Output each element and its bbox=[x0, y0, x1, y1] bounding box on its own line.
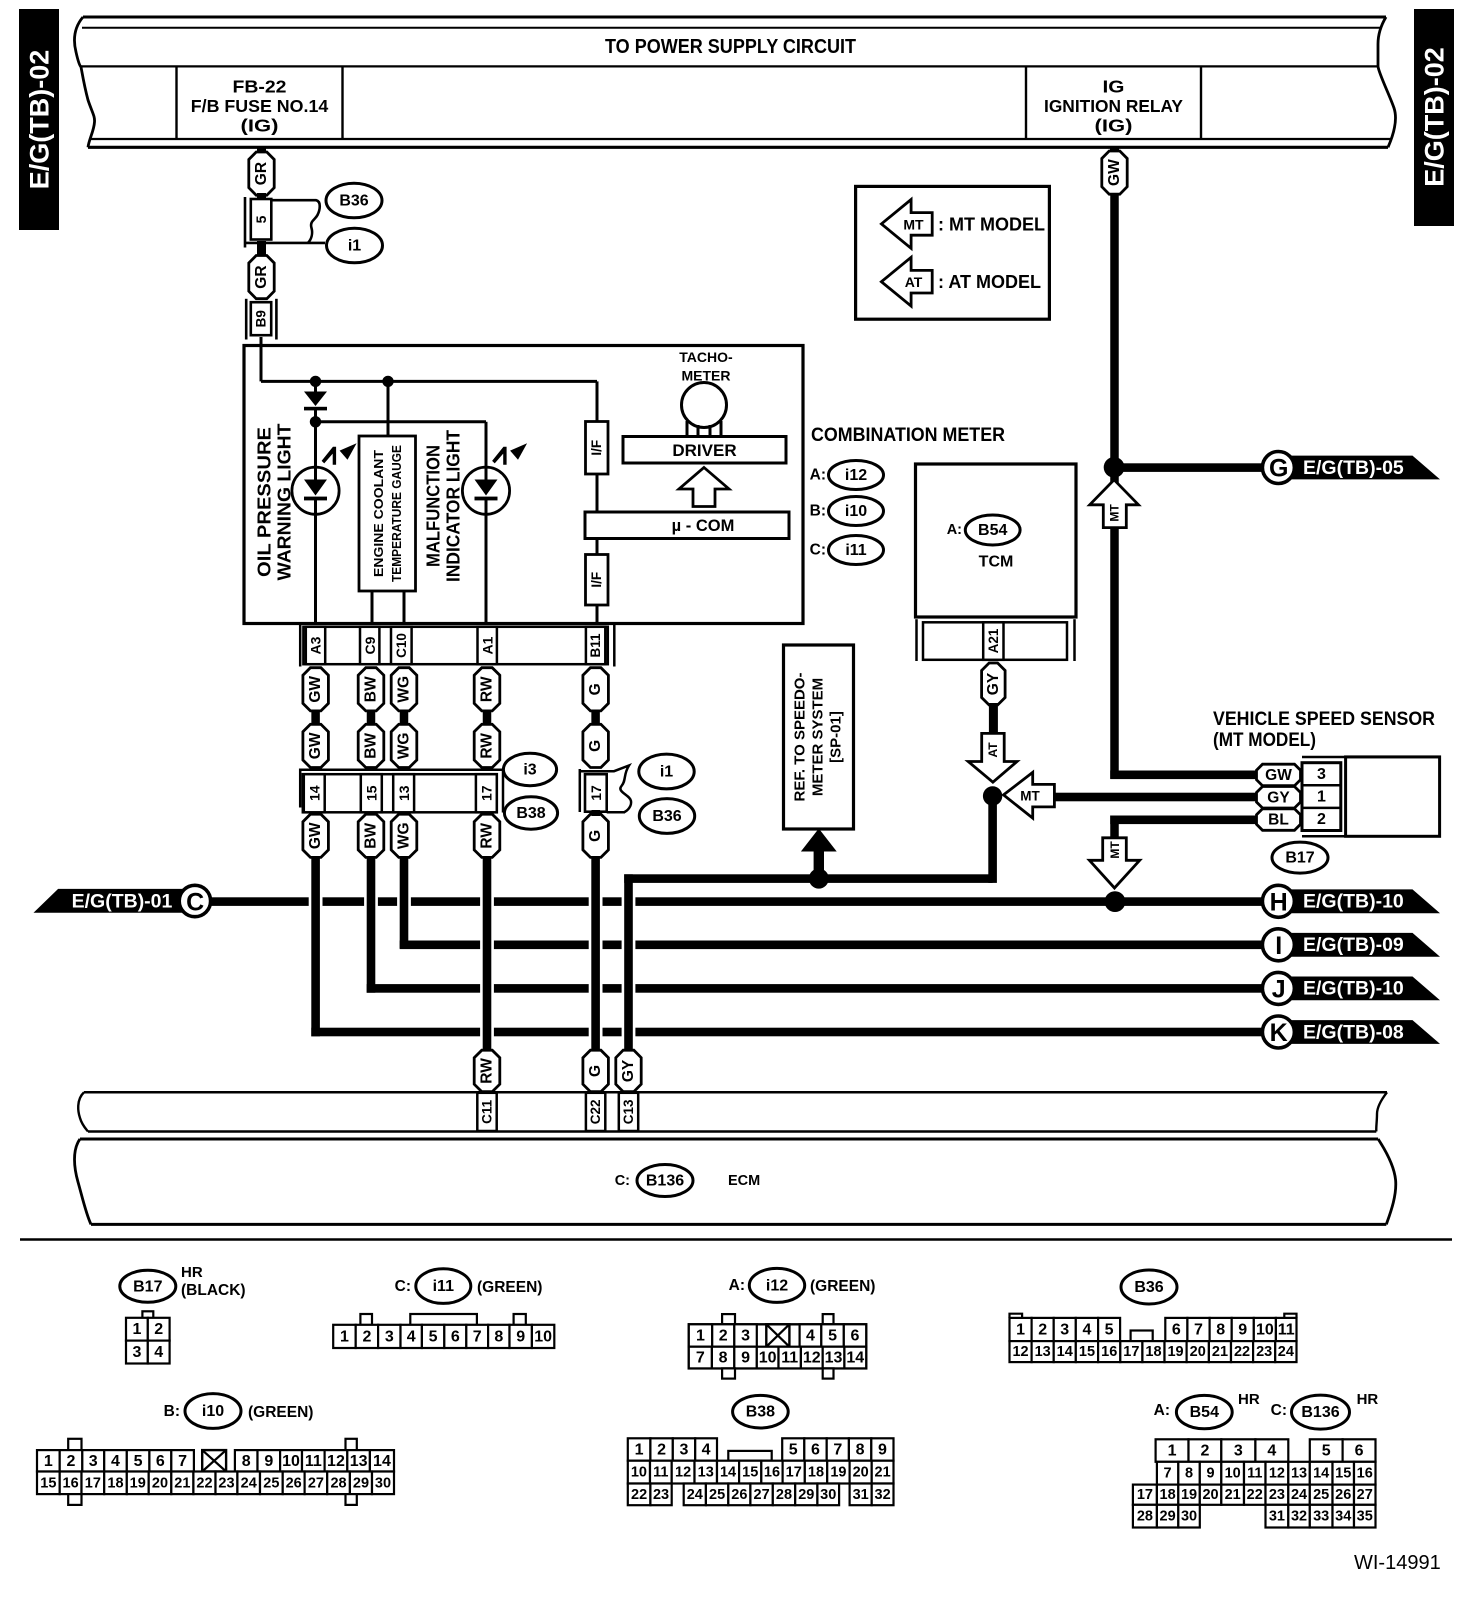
svg-text:i11: i11 bbox=[845, 542, 866, 559]
svg-text:13: 13 bbox=[1035, 1344, 1051, 1360]
svg-text:5: 5 bbox=[1105, 1322, 1114, 1339]
legend AT arrow bbox=[881, 257, 932, 306]
svg-text:1: 1 bbox=[1317, 789, 1326, 806]
svg-text:B38: B38 bbox=[746, 1404, 775, 1421]
wire colour tag G (row3) bbox=[583, 814, 609, 857]
svg-text:i12: i12 bbox=[845, 467, 867, 484]
svg-text:B:: B: bbox=[810, 503, 826, 520]
svg-text:WI-14991: WI-14991 bbox=[1354, 1552, 1441, 1574]
svg-text:B36: B36 bbox=[652, 808, 681, 825]
wire gauge to pin C9 bbox=[371, 591, 374, 625]
svg-text:8: 8 bbox=[1185, 1466, 1193, 1482]
legend box bbox=[856, 186, 1050, 319]
power supply bus bar left torn edge bbox=[74, 17, 94, 147]
svg-text:23: 23 bbox=[218, 1475, 234, 1491]
svg-text:34: 34 bbox=[1335, 1509, 1351, 1525]
wire colour tag BW (row1) bbox=[358, 668, 384, 711]
svg-text:18: 18 bbox=[1145, 1344, 1161, 1360]
wire colour tag BL (VSS) bbox=[1257, 809, 1301, 831]
wire colour tag WG (row3) bbox=[391, 814, 417, 857]
svg-text:[SP-01]: [SP-01] bbox=[828, 711, 845, 763]
svg-text:3: 3 bbox=[1234, 1443, 1243, 1460]
connector pinout B36 bbox=[1010, 1314, 1023, 1318]
svg-text:5: 5 bbox=[1322, 1443, 1331, 1460]
svg-text:6: 6 bbox=[1355, 1443, 1364, 1460]
svg-text:i3: i3 bbox=[523, 762, 536, 779]
svg-text:E/G(TB)-09: E/G(TB)-09 bbox=[1303, 934, 1404, 956]
svg-text:B38: B38 bbox=[516, 805, 545, 822]
svg-text:E/G(TB)-08: E/G(TB)-08 bbox=[1303, 1021, 1404, 1043]
svg-text:(IG): (IG) bbox=[241, 116, 279, 136]
meter pin C9 bbox=[360, 627, 379, 664]
svg-text:25: 25 bbox=[1313, 1487, 1329, 1503]
svg-text:20: 20 bbox=[853, 1465, 869, 1481]
svg-text:GW: GW bbox=[307, 822, 324, 849]
svg-text:MALFUNCTION: MALFUNCTION bbox=[424, 445, 444, 567]
svg-text:G: G bbox=[587, 1065, 604, 1077]
svg-text:9: 9 bbox=[1207, 1466, 1215, 1482]
svg-text:HR: HR bbox=[1238, 1391, 1260, 1408]
svg-text:31: 31 bbox=[1269, 1509, 1285, 1525]
svg-text:GW: GW bbox=[307, 676, 324, 703]
svg-text:4: 4 bbox=[154, 1344, 163, 1361]
svg-text:15: 15 bbox=[1079, 1344, 1095, 1360]
svg-text:(BLACK): (BLACK) bbox=[181, 1282, 246, 1299]
svg-text:3: 3 bbox=[1317, 766, 1326, 783]
svg-text:7: 7 bbox=[833, 1442, 842, 1459]
svg-text:A:: A: bbox=[947, 522, 962, 538]
svg-text:C10: C10 bbox=[394, 633, 409, 658]
svg-text:GW: GW bbox=[1265, 767, 1292, 784]
junction node H line bbox=[1105, 891, 1126, 912]
svg-text:GR: GR bbox=[253, 162, 270, 185]
svg-text:B:: B: bbox=[164, 1403, 180, 1420]
svg-text:10: 10 bbox=[534, 1328, 552, 1345]
svg-text:GR: GR bbox=[253, 265, 270, 288]
svg-text:3: 3 bbox=[741, 1328, 750, 1345]
legend MT arrow bbox=[881, 200, 932, 249]
combination meter box bbox=[244, 346, 803, 624]
svg-text:15: 15 bbox=[363, 785, 379, 801]
svg-text:ECM: ECM bbox=[728, 1173, 760, 1189]
wire stub G bbox=[591, 710, 600, 725]
ECM pin C11 bbox=[477, 1093, 496, 1131]
connector pinout i12 bbox=[722, 1314, 735, 1324]
meter pin A3 bbox=[306, 627, 325, 664]
LED emission arrows (oil pressure) bbox=[322, 447, 335, 464]
page link tag G E/G(TB)-05 bbox=[1285, 456, 1440, 480]
svg-text:33: 33 bbox=[1313, 1509, 1329, 1525]
svg-text:1: 1 bbox=[1168, 1443, 1177, 1460]
svg-text:8: 8 bbox=[242, 1453, 251, 1470]
svg-text:5: 5 bbox=[134, 1453, 143, 1470]
svg-text:K: K bbox=[1270, 1019, 1288, 1047]
svg-text:C:: C: bbox=[1271, 1402, 1287, 1419]
svg-text:2: 2 bbox=[1200, 1443, 1209, 1460]
svg-text:22: 22 bbox=[631, 1487, 647, 1503]
svg-text:A1: A1 bbox=[479, 636, 495, 654]
svg-text:E/G(TB)-05: E/G(TB)-05 bbox=[1303, 457, 1404, 479]
svg-text:4: 4 bbox=[1082, 1322, 1091, 1339]
svg-text:GW: GW bbox=[307, 732, 324, 759]
svg-text:MT: MT bbox=[1108, 841, 1122, 859]
mu-com block bbox=[585, 512, 789, 539]
svg-text:I: I bbox=[1275, 932, 1282, 960]
connector pinout B38 bbox=[628, 1438, 651, 1460]
svg-text:3: 3 bbox=[132, 1344, 141, 1361]
svg-text:10: 10 bbox=[1256, 1322, 1274, 1339]
svg-text:30: 30 bbox=[375, 1475, 391, 1491]
power supply bus bar outline bbox=[83, 16, 1386, 19]
connector tag B9 bbox=[245, 299, 248, 340]
wire colour tag BW (row3) bbox=[358, 814, 384, 857]
svg-text:3: 3 bbox=[680, 1442, 689, 1459]
connector ref ellipse B36 bbox=[326, 183, 382, 218]
svg-text:5: 5 bbox=[828, 1328, 837, 1345]
svg-text:17: 17 bbox=[786, 1465, 802, 1481]
MT model arrow down (to E/G(TB)-10) bbox=[1089, 838, 1139, 888]
connector pinout i11 bbox=[360, 1314, 372, 1325]
wire stub GR to connector 5 bbox=[257, 193, 266, 202]
svg-text:C:: C: bbox=[810, 542, 826, 559]
wire colour tag GY (ECM) bbox=[616, 1050, 641, 1092]
svg-text:24: 24 bbox=[1291, 1487, 1307, 1503]
svg-text:G: G bbox=[587, 740, 604, 752]
svg-text:7: 7 bbox=[696, 1350, 705, 1367]
wire colour tag GW (row3) bbox=[303, 814, 329, 857]
svg-text:COMBINATION METER: COMBINATION METER bbox=[811, 425, 1005, 446]
svg-text:23: 23 bbox=[653, 1487, 669, 1503]
wire GY to ECM C13 bbox=[624, 874, 633, 1050]
svg-text:REF. TO SPEEDO-: REF. TO SPEEDO- bbox=[792, 673, 809, 802]
svg-text:24: 24 bbox=[241, 1475, 257, 1491]
svg-text:GY: GY bbox=[620, 1059, 637, 1082]
junction node gauge branch bbox=[382, 376, 393, 387]
junction node oil-pressure branch bbox=[310, 376, 321, 387]
junction node AT/MT merge bbox=[983, 786, 1002, 805]
TCM connector strip bbox=[915, 619, 918, 661]
svg-text:AT: AT bbox=[905, 274, 923, 290]
svg-text:20: 20 bbox=[1202, 1487, 1218, 1503]
svg-text:17: 17 bbox=[1137, 1487, 1153, 1503]
svg-text:18: 18 bbox=[1160, 1487, 1176, 1503]
svg-text:1: 1 bbox=[44, 1453, 53, 1470]
svg-text:E/G(TB)-02: E/G(TB)-02 bbox=[25, 50, 55, 190]
svg-text:2: 2 bbox=[1317, 811, 1326, 828]
bus wire to E/G(TB)-08 (K) bbox=[311, 1028, 480, 1037]
wire mu-com to I/F lower bbox=[596, 539, 599, 555]
svg-text:I/F: I/F bbox=[589, 440, 604, 456]
svg-text:30: 30 bbox=[1181, 1509, 1197, 1525]
svg-text:17: 17 bbox=[85, 1475, 101, 1491]
svg-text:C:: C: bbox=[615, 1173, 630, 1189]
svg-text:23: 23 bbox=[1269, 1487, 1285, 1503]
svg-text:TEMPERATURE GAUGE: TEMPERATURE GAUGE bbox=[389, 445, 404, 582]
tachometer dial bbox=[682, 383, 727, 428]
svg-text:BW: BW bbox=[363, 676, 380, 702]
connector pinout B17 bbox=[142, 1311, 153, 1318]
ECM pin C13 bbox=[619, 1093, 638, 1131]
connector ref ellipse B36 (lower) bbox=[639, 799, 694, 834]
svg-text:i10: i10 bbox=[202, 1403, 224, 1420]
svg-text:18: 18 bbox=[107, 1475, 123, 1491]
svg-text:18: 18 bbox=[808, 1465, 824, 1481]
svg-text:WARNING LIGHT: WARNING LIGHT bbox=[275, 424, 295, 581]
svg-text:12: 12 bbox=[327, 1453, 345, 1470]
svg-text:9: 9 bbox=[516, 1328, 525, 1345]
oil pressure warning LED bbox=[292, 467, 339, 514]
connector ref ellipse B38 bbox=[504, 797, 557, 829]
meter pin C10 bbox=[391, 627, 412, 664]
diode D1 bbox=[314, 381, 317, 392]
svg-text:G: G bbox=[587, 830, 604, 842]
svg-text:17: 17 bbox=[1123, 1344, 1139, 1360]
svg-text:E/G(TB)-01: E/G(TB)-01 bbox=[72, 890, 173, 912]
svg-text:16: 16 bbox=[1101, 1344, 1117, 1360]
wire meter internal bus bbox=[261, 380, 597, 383]
svg-text:GW: GW bbox=[1106, 159, 1123, 186]
wire oil pressure LED to pin A3 bbox=[314, 514, 317, 625]
TCM box bbox=[916, 464, 1077, 617]
wire ignition feed elbow to GW pin bbox=[1110, 467, 1119, 779]
svg-text:10: 10 bbox=[759, 1350, 777, 1367]
page link tag K E/G(TB)-08 bbox=[1285, 1020, 1440, 1044]
svg-text:BL: BL bbox=[1268, 812, 1289, 829]
svg-text:13: 13 bbox=[396, 785, 412, 801]
half connector pin 17 (B36/i1) bbox=[579, 769, 582, 812]
wire colour tag GR (lower) bbox=[249, 256, 274, 299]
connector ref B17 with HR (BLACK) bbox=[120, 1270, 176, 1302]
svg-text:2: 2 bbox=[1038, 1322, 1047, 1339]
svg-text:27: 27 bbox=[754, 1487, 770, 1503]
pin 14 bbox=[304, 774, 325, 812]
svg-text:B136: B136 bbox=[1301, 1404, 1339, 1421]
svg-text:12: 12 bbox=[1269, 1466, 1285, 1482]
svg-text:G: G bbox=[1269, 455, 1288, 483]
svg-text:C9: C9 bbox=[362, 636, 378, 654]
junction node speedometer branch bbox=[809, 869, 829, 889]
svg-text:25: 25 bbox=[709, 1487, 725, 1503]
svg-text:26: 26 bbox=[1335, 1487, 1351, 1503]
svg-text:2: 2 bbox=[657, 1442, 666, 1459]
svg-text:11: 11 bbox=[1278, 1322, 1295, 1339]
svg-text:AT: AT bbox=[986, 742, 1000, 758]
svg-text:7: 7 bbox=[178, 1453, 187, 1470]
svg-text:31: 31 bbox=[853, 1487, 869, 1503]
svg-text:OIL PRESSURE: OIL PRESSURE bbox=[255, 427, 275, 577]
TCM pin A21 bbox=[983, 622, 1003, 660]
svg-text:VEHICLE SPEED SENSOR: VEHICLE SPEED SENSOR bbox=[1213, 709, 1435, 730]
svg-text:C13: C13 bbox=[621, 1099, 636, 1124]
svg-text:G: G bbox=[587, 683, 604, 695]
page link tag I E/G(TB)-09 bbox=[1285, 933, 1440, 957]
svg-text:(GREEN): (GREEN) bbox=[810, 1278, 875, 1295]
svg-text:IG: IG bbox=[1103, 77, 1125, 97]
svg-text:11: 11 bbox=[781, 1350, 798, 1367]
svg-text:8: 8 bbox=[1216, 1322, 1225, 1339]
svg-text:12: 12 bbox=[1012, 1344, 1028, 1360]
wire to coolant gauge bbox=[387, 381, 390, 437]
svg-text:7: 7 bbox=[1194, 1322, 1203, 1339]
svg-text:5: 5 bbox=[253, 215, 269, 223]
wire GW to E/G(TB)-08 line bbox=[311, 857, 320, 1037]
wire colour tag BW (row2) bbox=[358, 724, 384, 767]
wire to malfunction LED bbox=[485, 422, 488, 470]
connector strip i3/B38 bbox=[299, 769, 504, 772]
svg-text:28: 28 bbox=[776, 1487, 792, 1503]
svg-text:E/G(TB)-02: E/G(TB)-02 bbox=[1420, 47, 1450, 187]
svg-text:METER SYSTEM: METER SYSTEM bbox=[810, 678, 827, 796]
svg-text:A3: A3 bbox=[308, 636, 324, 654]
svg-text:B11: B11 bbox=[588, 633, 603, 658]
svg-text:i1: i1 bbox=[660, 764, 673, 781]
svg-text:15: 15 bbox=[1335, 1466, 1351, 1482]
svg-text:MT: MT bbox=[1020, 788, 1040, 803]
svg-text:22: 22 bbox=[196, 1475, 212, 1491]
svg-text:13: 13 bbox=[1291, 1466, 1307, 1482]
svg-text:14: 14 bbox=[1313, 1466, 1329, 1482]
svg-text:29: 29 bbox=[1160, 1509, 1176, 1525]
svg-text:B54: B54 bbox=[1190, 1404, 1219, 1421]
svg-text:19: 19 bbox=[830, 1465, 846, 1481]
connector pinout B54/B136 bbox=[1156, 1439, 1189, 1462]
svg-text:4: 4 bbox=[407, 1328, 416, 1345]
svg-text:C: C bbox=[186, 888, 204, 916]
connector pinout i10 bbox=[68, 1439, 81, 1450]
meter connector strip bbox=[299, 622, 302, 667]
MT model arrow left (speed signal) bbox=[1004, 772, 1055, 818]
svg-text:TACHO-: TACHO- bbox=[679, 349, 733, 365]
svg-text:10: 10 bbox=[282, 1453, 300, 1470]
wire MIL branch horizontal bbox=[316, 420, 487, 423]
bus wire E/G(TB)-01 to E/G(TB)-10 (C-H) bbox=[211, 897, 309, 906]
junction node MIL branch bbox=[310, 416, 321, 427]
svg-text:5: 5 bbox=[429, 1328, 438, 1345]
svg-text:27: 27 bbox=[1357, 1487, 1373, 1503]
svg-text:F/B FUSE NO.14: F/B FUSE NO.14 bbox=[191, 96, 329, 116]
connector ref ellipse i1 bbox=[327, 228, 383, 263]
svg-text:HR: HR bbox=[1357, 1391, 1379, 1408]
wire gauge to pin C10 bbox=[403, 591, 406, 625]
svg-text:INDICATOR LIGHT: INDICATOR LIGHT bbox=[444, 430, 464, 582]
svg-text:19: 19 bbox=[130, 1475, 146, 1491]
svg-text:14: 14 bbox=[720, 1465, 736, 1481]
wire stub GY to AT arrow bbox=[989, 703, 998, 734]
svg-text:1: 1 bbox=[1016, 1322, 1025, 1339]
svg-text:13: 13 bbox=[350, 1453, 368, 1470]
connector ref ellipse i1 (lower) bbox=[639, 754, 694, 789]
svg-text:C11: C11 bbox=[480, 1099, 495, 1124]
wire stub IG relay to GW tag bbox=[1110, 146, 1119, 154]
wire colour tag RW (row1) bbox=[474, 668, 500, 711]
LED emission arrows (MIL) bbox=[493, 447, 506, 464]
pin 13 bbox=[393, 774, 414, 812]
svg-text:14: 14 bbox=[1057, 1344, 1073, 1360]
svg-text:3: 3 bbox=[385, 1328, 394, 1345]
wire colour tag GY (TCM) bbox=[982, 663, 1006, 705]
wire to oil pressure LED bbox=[314, 422, 317, 470]
svg-text:14: 14 bbox=[846, 1350, 864, 1367]
svg-text:IGNITION RELAY: IGNITION RELAY bbox=[1044, 96, 1183, 116]
svg-text:22: 22 bbox=[1247, 1487, 1263, 1503]
svg-text:8: 8 bbox=[719, 1350, 728, 1367]
engine coolant temperature gauge bbox=[359, 436, 416, 591]
svg-text:7: 7 bbox=[1164, 1466, 1172, 1482]
wire stub WG bbox=[400, 710, 409, 725]
svg-text:15: 15 bbox=[742, 1465, 758, 1481]
svg-text:: MT MODEL: : MT MODEL bbox=[938, 214, 1045, 234]
wire colour tag G (ECM) bbox=[583, 1050, 609, 1092]
wire stub RW bbox=[483, 710, 492, 725]
wire colour tag GR (upper) bbox=[249, 152, 274, 195]
svg-text:27: 27 bbox=[308, 1475, 324, 1491]
svg-text:RW: RW bbox=[479, 676, 496, 702]
svg-text:GY: GY bbox=[985, 672, 1002, 695]
speedometer branch arrow bbox=[814, 848, 824, 879]
svg-text:14: 14 bbox=[373, 1453, 391, 1470]
svg-text:2: 2 bbox=[67, 1453, 76, 1470]
svg-text:24: 24 bbox=[687, 1487, 703, 1503]
wire B9 feed inside meter bbox=[260, 346, 263, 382]
svg-text:20: 20 bbox=[152, 1475, 168, 1491]
svg-text:B17: B17 bbox=[1285, 850, 1314, 867]
page link tag C E/G(TB)-01 bbox=[34, 889, 187, 913]
page link tag J E/G(TB)-10 bbox=[1285, 977, 1440, 1001]
svg-text:22: 22 bbox=[1234, 1344, 1250, 1360]
wire colour tag RW (ECM) bbox=[474, 1050, 500, 1092]
svg-text:A:: A: bbox=[1154, 1402, 1170, 1419]
page link tag H E/G(TB)-10 bbox=[1285, 889, 1440, 913]
svg-text:35: 35 bbox=[1357, 1509, 1373, 1525]
interface block I/F lower bbox=[586, 555, 609, 606]
svg-text:16: 16 bbox=[63, 1475, 79, 1491]
thick wire GW ignition feed down bbox=[1110, 193, 1119, 467]
connector ref ellipse i3 bbox=[503, 753, 556, 785]
svg-text:WG: WG bbox=[396, 822, 413, 849]
wire colour tag WG (row2) bbox=[391, 724, 417, 767]
svg-text:13: 13 bbox=[825, 1350, 843, 1367]
svg-text:DRIVER: DRIVER bbox=[672, 441, 736, 460]
svg-text:6: 6 bbox=[851, 1328, 860, 1345]
svg-text:TCM: TCM bbox=[979, 554, 1014, 571]
wire colour tag G (row1) bbox=[583, 668, 609, 711]
svg-text:19: 19 bbox=[1181, 1487, 1197, 1503]
svg-text:MT: MT bbox=[903, 216, 924, 232]
wire colour tag GW (row2) bbox=[303, 724, 329, 767]
left page banner E/G(TB)-02 bbox=[19, 9, 59, 230]
wire colour tag WG (row1) bbox=[391, 668, 417, 711]
svg-text:WG: WG bbox=[396, 676, 413, 703]
svg-text:6: 6 bbox=[451, 1328, 460, 1345]
svg-text:A:: A: bbox=[810, 467, 826, 484]
svg-text:BW: BW bbox=[363, 823, 380, 849]
connector ref B38 bbox=[733, 1395, 789, 1428]
wire stub GW bbox=[311, 710, 320, 725]
svg-text:B54: B54 bbox=[978, 522, 1007, 539]
svg-text:13: 13 bbox=[698, 1465, 714, 1481]
svg-text:A:: A: bbox=[729, 1277, 745, 1294]
svg-text:A21: A21 bbox=[986, 628, 1001, 653]
ECM connector strip bbox=[84, 1091, 1387, 1094]
relay block IG IGNITION RELAY (IG) bbox=[1025, 66, 1027, 139]
svg-text:11: 11 bbox=[1247, 1466, 1262, 1482]
svg-text:21: 21 bbox=[875, 1465, 891, 1481]
svg-text:17: 17 bbox=[478, 785, 494, 801]
interface block I/F upper bbox=[596, 381, 599, 421]
ECM box bbox=[80, 1138, 1378, 1141]
svg-text:(GREEN): (GREEN) bbox=[477, 1279, 542, 1296]
svg-text:(MT MODEL): (MT MODEL) bbox=[1213, 730, 1316, 751]
